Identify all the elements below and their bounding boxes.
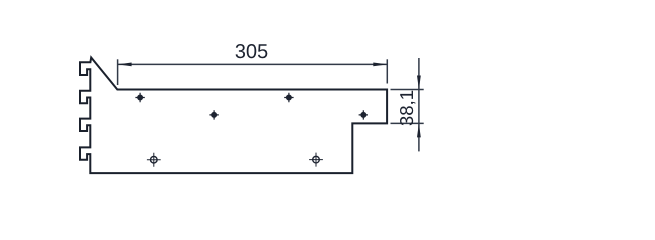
dimension 305: extension line left [117,59,119,85]
dimension 305: dimension line [118,63,388,65]
point marker P3 [209,110,218,119]
dimension 305: left arrowhead [118,63,132,67]
part outline: plate with castellated left edge, chamfer, stepped right side [80,58,387,174]
hole target marker H2 [309,153,323,167]
dimension 305: text [236,44,268,58]
dimension 38.1: bottom arrowhead [417,123,421,137]
dimension 38.1: dimension line [418,58,420,151]
dimension 38.1: text (rotated) [400,91,415,126]
dimension 305: extension line right [386,59,388,83]
point marker P2 [284,93,293,102]
dimension 305: right arrowhead [373,63,387,67]
dimension 38.1: extension line top [391,89,424,91]
dimension 38.1: extension line bottom [391,122,424,124]
point marker P4 [359,110,368,119]
dimension 38.1: top arrowhead [417,76,421,90]
point marker P1 [135,93,144,102]
hole target marker H1 [147,153,161,167]
